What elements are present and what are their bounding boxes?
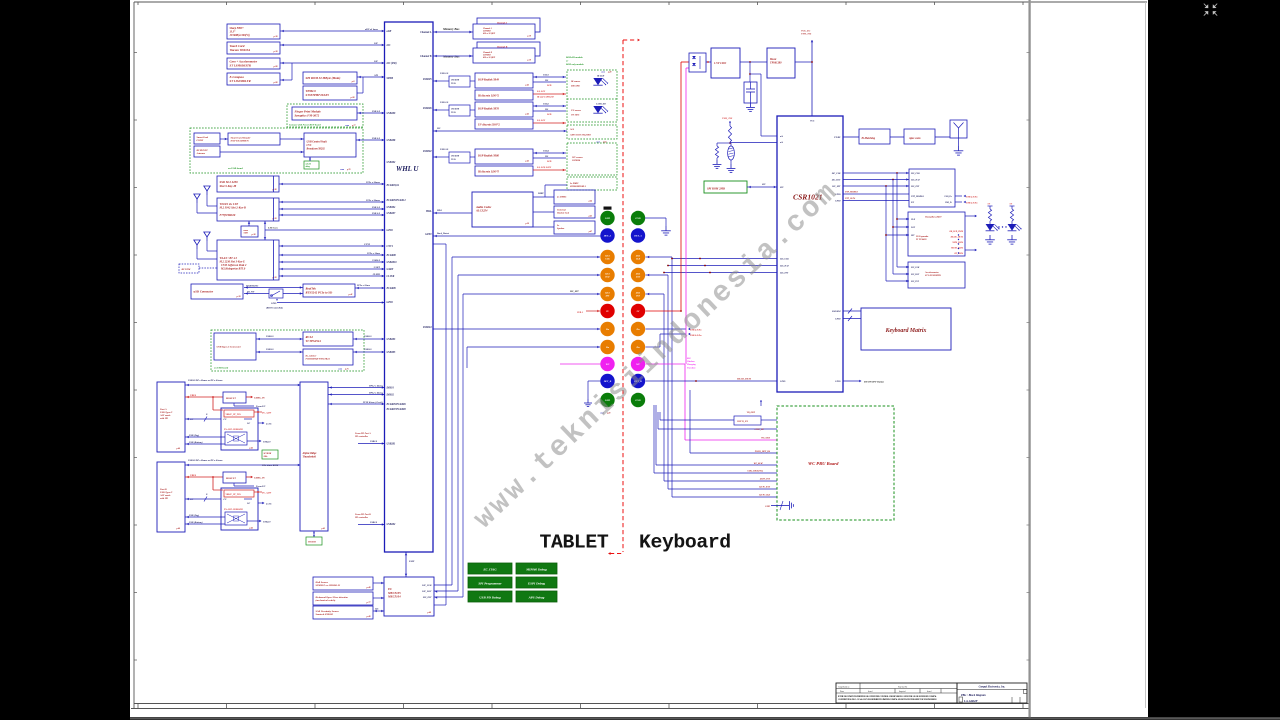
svg-text:5VB A: 5VB A [577, 311, 583, 314]
svg-text:Headset Jack: Headset Jack [556, 211, 570, 214]
svg-text:USB 2.0: USB 2.0 [440, 101, 449, 104]
svg-text:DSP Realtek 5849: DSP Realtek 5849 [477, 78, 499, 81]
svg-text:Wacom W9013A: Wacom W9013A [230, 48, 251, 52]
svg-text:I2C_DAT: I2C_DAT [779, 265, 789, 268]
svg-text:DSP Realtek 5080: DSP Realtek 5080 [477, 154, 499, 157]
svg-text:p.45: p.45 [249, 527, 254, 530]
svg-text:PD 5k: PD 5k [451, 112, 456, 114]
svg-text:PCIe605/PCIe606: PCIe605/PCIe606 [387, 403, 407, 406]
svg-text:USB 3.0: USB 3.0 [440, 148, 449, 151]
svg-text:I2C_DAT: I2C_DAT [421, 590, 432, 593]
svg-text:uSD Connector: uSD Connector [194, 290, 214, 294]
svg-text:KSO/KSI: KSO/KSI [831, 311, 841, 313]
svg-text:INT: INT [605, 296, 610, 298]
svg-text:p.48: p.48 [607, 71, 611, 74]
svg-text:TI TPS2544: TI TPS2544 [306, 339, 322, 343]
svg-text:ESPI: ESPI [408, 560, 414, 563]
svg-text:p.46: p.46 [176, 527, 181, 530]
svg-text:NXP TD-6800EN: NXP TD-6800EN [230, 140, 249, 143]
svg-text:USB ROM: USB ROM [451, 109, 459, 111]
svg-text:ALS: ALS [569, 128, 575, 131]
svg-text:Channel A: Channel A [420, 31, 432, 34]
svg-text:I2C: I2C [373, 42, 378, 45]
svg-text:Charging: Charging [687, 364, 697, 366]
svg-text:DET_A: DET_A [633, 235, 642, 238]
svg-text:LED: LED [546, 85, 552, 87]
svg-text:I2C_CLK: I2C_CLK [910, 267, 920, 269]
svg-text:I2C1: I2C1 [604, 293, 610, 295]
svg-text:USB2.0: USB2.0 [266, 336, 274, 338]
svg-text:2.9, 2.8V: 2.9, 2.8V [536, 120, 546, 122]
svg-text:USB2.0: USB2.0 [263, 442, 271, 444]
svg-text:4Gb x 32 QDP: 4Gb x 32 QDP [482, 32, 496, 35]
svg-text:Dn: Dn [605, 346, 610, 349]
svg-text:I2C_DAT: I2C_DAT [910, 273, 920, 276]
svg-text:Issued: Issued [927, 691, 931, 693]
svg-text:RFFEM: RFFEM [182, 268, 192, 271]
svg-text:I2CW_CLK: I2CW_CLK [758, 495, 770, 497]
svg-text:RGB only module: RGB only module [566, 63, 585, 66]
svg-text:CLK: CLK [605, 259, 610, 261]
svg-text:From PD Port B: From PD Port B [355, 513, 371, 516]
svg-text:IR sensor: IR sensor [570, 81, 580, 83]
svg-text:USB (Top): USB (Top) [189, 434, 199, 437]
svg-text:CC: CC [190, 498, 194, 501]
svg-text:MEC5104: MEC5104 [387, 595, 401, 599]
svg-text:VCC: VCC [810, 121, 815, 123]
svg-text:Universal: Universal [557, 210, 566, 212]
svg-text:GC: GC [247, 423, 251, 425]
svg-text:ST LNG2DMTR: ST LNG2DMTR [925, 275, 941, 277]
svg-text:HDA: HDA [425, 210, 432, 213]
svg-text:WC PRU Board: WC PRU Board [808, 461, 839, 466]
svg-text:PCIe603,04: PCIe603,04 [387, 184, 400, 187]
svg-text:Channel B: Channel B [420, 55, 432, 58]
svg-text:GC: GC [247, 503, 251, 505]
svg-text:EN: EN [910, 202, 914, 204]
svg-text:CC: CC [224, 499, 228, 501]
svg-text:PD 5k: PD 5k [451, 83, 456, 85]
svg-text:I2C_CLK: I2C_CLK [910, 173, 920, 175]
svg-text:4Gb x 32 QDP: 4Gb x 32 QDP [482, 56, 496, 59]
svg-text:I2C_INT: I2C_INT [569, 291, 579, 293]
svg-text:to EC: to EC [266, 423, 272, 426]
svg-text:USB201: USB201 [387, 443, 397, 446]
svg-text:USB 2.0: USB 2.0 [372, 137, 381, 140]
svg-text:CONFIDENTIAL DOC. CLASS A LEVE: CONFIDENTIAL DOC. CLASS A LEVEL DISTRIBU… [838, 698, 937, 701]
svg-text:I2C_DAT: I2C_DAT [910, 179, 920, 182]
svg-text:PCIe x 1lane: PCIe x 1lane [367, 252, 381, 255]
svg-text:GPIO: GPIO [780, 381, 786, 383]
svg-text:From PD Port A: From PD Port A [355, 432, 371, 435]
svg-text:Broadcom 58202: Broadcom 58202 [306, 147, 326, 150]
svg-text:Channel A: Channel A [483, 27, 493, 30]
svg-text:I2C: I2C [374, 609, 379, 611]
svg-text:CLK: CLK [636, 259, 641, 261]
svg-text:Synaptics FM-3672: Synaptics FM-3672 [295, 114, 320, 118]
svg-text:GPIO: GPIO [387, 301, 393, 304]
svg-text:aDP: aDP [387, 30, 392, 33]
svg-text:PTP_SLP#: PTP_SLP# [845, 198, 856, 200]
svg-text:USB_D+: USB_D+ [945, 196, 953, 198]
svg-text:Proj Seal No: Proj Seal No [898, 686, 907, 688]
svg-text:USB202: USB202 [387, 523, 397, 526]
svg-text:PTP_MODE#: PTP_MODE# [845, 192, 859, 194]
svg-text:p.75: p.75 [344, 369, 349, 371]
svg-text:DAT: DAT [604, 276, 610, 279]
svg-text:CNV1: CNV1 [387, 245, 394, 248]
svg-text:GND: GND [635, 217, 640, 220]
svg-text:OV 5675: OV 5675 [571, 115, 580, 117]
svg-text:LA-G862P: LA-G862P [963, 699, 977, 703]
svg-text:SP3021Z or AH1806-W: SP3021Z or AH1806-W [316, 584, 341, 587]
svg-text:Inspected: Inspected [899, 691, 906, 693]
svg-text:USB2.0: USB2.0 [364, 336, 372, 338]
svg-text:p.45: p.45 [321, 527, 326, 530]
svg-text:LED: LED [546, 114, 552, 116]
svg-text:HEAD_DET#: HEAD_DET# [736, 378, 752, 381]
svg-text:VBLK~_PP_TUS: VBLK~_PP_TUS [226, 494, 242, 496]
svg-text:NUM_LED#: NUM_LED# [951, 242, 964, 244]
svg-text:I2C_INT: I2C_INT [910, 281, 920, 283]
svg-text:USB 2.0: USB 2.0 [440, 72, 449, 75]
svg-text:VBLK~_PP_TUS: VBLK~_PP_TUS [226, 414, 242, 416]
svg-text:DET_A: DET_A [603, 235, 612, 238]
svg-text:CSIa2: CSIa2 [543, 104, 550, 106]
svg-text:Speaker: Speaker [557, 228, 564, 230]
svg-text:I2C1: I2C1 [635, 293, 641, 295]
svg-text:SPI60: SPI60 [387, 77, 394, 80]
svg-text:USB Type-C Connector: USB Type-C Connector [217, 345, 241, 348]
svg-text:HDA: HDA [436, 209, 442, 212]
svg-text:GND: GND [765, 506, 770, 508]
svg-text:Keyboard Matrix: Keyboard Matrix [885, 328, 927, 334]
svg-text:(BIOS Controlled): (BIOS Controlled) [266, 307, 283, 310]
svg-text:USB204: USB204 [423, 326, 433, 329]
svg-text:Memory Bus: Memory Bus [442, 27, 460, 31]
svg-text:ST LIS2MDLTR: ST LIS2MDLTR [230, 79, 251, 83]
svg-text:USB (Bottom): USB (Bottom) [189, 521, 203, 524]
svg-text:USB3.0: USB3.0 [364, 349, 372, 351]
svg-text:MUTE_LED#: MUTE_LED# [950, 248, 964, 250]
svg-text:IR and CAM LED: IR and CAM LED [536, 96, 554, 99]
svg-text:IO Expander: IO Expander [915, 236, 929, 238]
svg-text:TS-ACE A5982-DD: TS-ACE A5982-DD [224, 428, 243, 431]
svg-text:CLINK: CLINK [373, 273, 381, 276]
svg-text:USB3A/DP x 2barre or DP x 4 la: USB3A/DP x 2barre or DP x 4 lanes [188, 379, 223, 382]
svg-text:conn: conn [601, 72, 605, 74]
svg-text:DAT: DAT [910, 226, 916, 229]
svg-text:VSW_3V3: VSW_3V3 [722, 117, 733, 120]
svg-text:USB ROM: USB ROM [451, 156, 459, 158]
svg-text:PBG : Block Diagram: PBG : Block Diagram [961, 694, 986, 697]
svg-text:P13HHD3QFN30GTR2A: P13HHD3QFN30GTR2A [306, 357, 331, 360]
svg-text:aDP x2 lanes: aDP x2 lanes [365, 28, 378, 31]
svg-text:DSP Realtek 5876: DSP Realtek 5876 [477, 107, 499, 110]
svg-text:I2C: I2C [436, 128, 441, 130]
svg-text:p.76: p.76 [346, 169, 351, 171]
svg-text:USB302: USB302 [423, 150, 433, 153]
svg-text:1.5V LDO: 1.5V LDO [714, 61, 726, 65]
svg-text:DMIC: DMIC [537, 193, 544, 195]
svg-text:UART: UART [374, 266, 381, 269]
svg-text:p.45: p.45 [525, 113, 530, 116]
svg-text:2/: 2/ [205, 494, 208, 496]
svg-text:5V: 5V [637, 310, 640, 313]
svg-text:USB207: USB207 [387, 212, 397, 215]
svg-text:LED: LED [546, 161, 552, 163]
svg-text:R01: R01 [687, 358, 691, 360]
svg-text:PCIe x 2lanes: PCIe x 2lanes [366, 199, 380, 202]
svg-text:SPI: SPI [780, 187, 784, 189]
svg-text:Name: Name [840, 691, 844, 693]
svg-text:I2C_INT: I2C_INT [910, 186, 920, 188]
svg-text:I2C1: I2C1 [604, 274, 610, 276]
svg-text:USB 2.0: USB 2.0 [372, 212, 381, 215]
svg-text:DPL2 x 4lanes: DPL2 x 4lanes [368, 391, 383, 394]
svg-text:debug: debug [306, 166, 310, 168]
svg-text:SPI Programmer: SPI Programmer [478, 581, 502, 585]
svg-text:I2C_INT: I2C_INT [422, 597, 432, 599]
svg-text:Back_Detect: Back_Detect [436, 232, 449, 235]
svg-text:UV discrete LDO*2: UV discrete LDO*2 [478, 123, 500, 126]
svg-text:with PD: with PD [160, 417, 168, 420]
svg-text:DDI01: DDI01 [386, 387, 395, 390]
svg-text:SD(4050)SIC: SD(4050)SIC [246, 285, 259, 288]
svg-text:Wireless: Wireless [687, 361, 695, 363]
svg-text:Connect with Power BTN board: Connect with Power BTN board [289, 124, 321, 127]
svg-text:CHRG_IN: CHRG_IN [254, 397, 265, 400]
svg-text:CLINK: CLINK [387, 275, 395, 278]
svg-text:16kb: 16kb [264, 456, 268, 458]
svg-text:p.45: p.45 [249, 447, 254, 450]
svg-text:I2C_CLK: I2C_CLK [831, 173, 841, 175]
svg-text:From EC: From EC [256, 405, 266, 408]
svg-text:USB3.0: USB3.0 [266, 349, 274, 351]
svg-text:PCIe608: PCIe608 [387, 254, 397, 257]
svg-text:to EC: to EC [266, 503, 272, 506]
svg-text:IF THE DOCUMENT IS PRINTED OR: IF THE DOCUMENT IS PRINTED OR COPIED THE… [838, 695, 937, 698]
svg-text:Antenna: Antenna [196, 152, 206, 155]
svg-text:VSW_3V3: VSW_3V3 [801, 33, 812, 36]
svg-text:SPI: SPI [762, 184, 766, 186]
svg-text:TABLET: TABLET [540, 531, 609, 553]
svg-text:CAM LED: CAM LED [596, 103, 606, 106]
svg-text:USB208: USB208 [387, 139, 397, 142]
svg-text:CC: CC [224, 419, 228, 421]
svg-text:USB304: USB304 [387, 206, 397, 209]
svg-text:UART: UART [387, 268, 394, 271]
svg-text:JV260B(x1200(V)): JV260B(x1200(V)) [230, 34, 250, 37]
svg-text:IR LED: IR LED [596, 76, 605, 78]
svg-text:GPIO: GPIO [835, 319, 841, 321]
svg-text:ESPI Debug: ESPI Debug [527, 581, 545, 585]
svg-text:GPIO: GPIO [425, 233, 431, 236]
svg-text:USB203: USB203 [387, 338, 397, 341]
svg-text:TI TC4630: TI TC4630 [916, 238, 927, 241]
svg-text:USB (Top): USB (Top) [189, 514, 199, 517]
svg-text:p.45: p.45 [525, 160, 530, 163]
svg-text:PCIE 4 lane ( Gen3 ): PCIE 4 lane ( Gen3 ) [363, 401, 383, 404]
svg-text:on USB board: on USB board [228, 167, 243, 170]
svg-text:I2C (650): I2C (650) [386, 62, 397, 65]
svg-text:WC_OKT: WC_OKT [761, 438, 771, 440]
svg-text:Pi-Matching: Pi-Matching [862, 137, 876, 140]
svg-text:CSIa1: CSIa1 [543, 75, 549, 77]
svg-text:5V_ALW: 5V_ALW [262, 492, 272, 495]
svg-text:USB2.0: USB2.0 [370, 522, 378, 524]
svg-text:M2.Halogertae BT5.0: M2.Halogertae BT5.0 [220, 267, 246, 270]
svg-text:USB2.0: USB2.0 [370, 441, 378, 443]
svg-text:ALC3254: ALC3254 [475, 209, 488, 213]
svg-text:Dn: Dn [605, 328, 610, 331]
svg-text:5V_ALW: 5V_ALW [262, 412, 272, 415]
svg-text:(mechanical switch): (mechanical switch) [316, 599, 336, 602]
svg-text:3x DMIC: 3x DMIC [569, 183, 579, 185]
svg-text:MOSFET: MOSFET [225, 477, 236, 480]
svg-text:WCFW_EN: WCFW_EN [737, 421, 748, 423]
svg-text:BT ON/OFF Button: BT ON/OFF Button [863, 381, 885, 384]
svg-text:AMS-TAOS TSL25903: AMS-TAOS TSL25903 [569, 134, 592, 137]
svg-text:p.45: p.45 [588, 215, 592, 218]
svg-text:ChargeKan_R459: ChargeKan_R459 [925, 216, 942, 219]
svg-text:PD controller: PD controller [355, 516, 368, 519]
svg-text:Comp/Serial no: Comp/Serial no [838, 686, 849, 688]
svg-text:2.9, 2.8V, 2.85V: 2.9, 2.8V, 2.85V [536, 167, 552, 169]
svg-text:USB PD Debug: USB PD Debug [479, 595, 501, 599]
svg-text:F77fW968.00: F77fW968.00 [220, 214, 236, 217]
svg-text:USB206: USB206 [423, 107, 433, 110]
svg-text:TS-ACE A5982-DD: TS-ACE A5982-DD [224, 508, 243, 511]
svg-text:VBES: VBES [190, 394, 197, 397]
svg-text:IR discrete LDO*5: IR discrete LDO*5 [477, 170, 500, 173]
svg-text:I2CW_DAT: I2CW_DAT [758, 486, 770, 489]
svg-text:CSIa4: CSIa4 [543, 150, 550, 153]
svg-text:USB2.0: USB2.0 [263, 522, 271, 524]
svg-text:Issued: Issued [868, 691, 872, 693]
svg-text:WC: WC [606, 363, 610, 366]
svg-text:From EC: From EC [256, 485, 266, 488]
svg-text:PCIe609: PCIe609 [387, 287, 397, 290]
svg-text:SPI ROM 2MB: SPI ROM 2MB [707, 188, 725, 191]
svg-text:p.45: p.45 [525, 84, 530, 87]
svg-text:VBES: VBES [190, 474, 197, 477]
svg-text:USB205: USB205 [423, 78, 433, 81]
svg-text:USB3A/DP x 2barre or DP x 4 la: USB3A/DP x 2barre or DP x 4 lanes [188, 459, 223, 462]
svg-text:Function: Function [687, 366, 696, 369]
svg-text:PCIe x 1lane: PCIe x 1lane [357, 284, 371, 287]
svg-text:CLK: CLK [911, 219, 916, 221]
svg-text:ST LSM6DS3TR: ST LSM6DS3TR [230, 64, 251, 68]
svg-text:with PD: with PD [160, 497, 168, 500]
svg-text:p.10: p.10 [527, 60, 532, 62]
svg-text:I2C_CLK: I2C_CLK [421, 585, 432, 587]
svg-text:SIM: SIM [244, 233, 248, 235]
svg-text:USB (Bottom): USB (Bottom) [189, 441, 203, 444]
svg-text:p.10: p.10 [527, 36, 532, 38]
svg-text:Dn: Dn [635, 328, 640, 331]
svg-text:CNVI: CNVI [364, 243, 370, 246]
svg-text:USB ROM: USB ROM [451, 80, 459, 82]
svg-text:VB_OKT: VB_OKT [747, 412, 756, 414]
svg-text:RTS5242 PCIe to SD: RTS5242 PCIe to SD [306, 291, 333, 295]
svg-text:GPIO: GPIO [271, 303, 277, 305]
svg-text:SPK0838HT4H-1: SPK0838HT4H-1 [570, 185, 586, 188]
svg-text:USB_D-: USB_D- [945, 202, 952, 204]
svg-text:2/: 2/ [205, 414, 208, 416]
svg-text:I2C_INT: I2C_INT [779, 273, 789, 275]
svg-text:WC_bIAC: WC_bIAC [754, 462, 764, 465]
svg-text:DAT: DAT [635, 276, 641, 279]
svg-text:SPI ROM: SPI ROM [308, 542, 316, 544]
svg-text:WWAN 4G LTE: WWAN 4G LTE [220, 203, 239, 206]
svg-text:CHG_BICX(NC): CHG_BICX(NC) [747, 470, 763, 473]
svg-text:GND: GND [635, 399, 640, 402]
svg-text:EC JTAG: EC JTAG [482, 567, 497, 571]
svg-text:Apex conn: Apex conn [908, 137, 921, 140]
svg-text:Accelerometer: Accelerometer [924, 271, 939, 274]
svg-text:IR discrete LDO*2: IR discrete LDO*2 [477, 94, 500, 97]
svg-text:I2C1: I2C1 [604, 256, 610, 258]
svg-text:Memory Bus: Memory Bus [442, 55, 460, 59]
svg-text:MOSFET: MOSFET [225, 397, 236, 400]
svg-text:INT: INT [910, 235, 915, 237]
svg-text:CHRG_IN: CHRG_IN [254, 477, 265, 480]
svg-text:USB 3.0: USB 3.0 [372, 206, 381, 209]
svg-text:p.41: p.41 [348, 293, 353, 296]
svg-text:PDs share ROM: PDs share ROM [262, 464, 279, 467]
svg-text:Semtech SX9320: Semtech SX9320 [316, 613, 334, 616]
svg-text:Slot 3-Key-M: Slot 3-Key-M [220, 184, 237, 188]
svg-text:I2C1: I2C1 [635, 256, 641, 258]
svg-text:USB305: USB305 [387, 351, 397, 354]
svg-text:USB 2.0 Dn: USB 2.0 Dn [966, 197, 978, 199]
svg-text:GPIO: GPIO [835, 381, 841, 383]
svg-text:PD controller: PD controller [355, 435, 368, 438]
svg-text:2x DMIC: 2x DMIC [556, 196, 567, 199]
svg-text:M.2 3042 Slot 2-Key-B: M.2 3042 Slot 2-Key-B [219, 207, 246, 210]
svg-text:USB 2.0: USB 2.0 [372, 110, 381, 113]
svg-text:PCIe x 2lanes: PCIe x 2lanes [366, 181, 380, 184]
svg-text:I2C: I2C [373, 60, 378, 63]
svg-text:POGO_DET_R#: POGO_DET_R# [755, 451, 771, 453]
svg-text:LTE Gen: LTE Gen [267, 227, 278, 230]
svg-text:USB2.0: USB2.0 [372, 259, 380, 262]
svg-text:UV sensor: UV sensor [571, 110, 581, 112]
svg-text:DPL2 x 4lanes: DPL2 x 4lanes [368, 384, 383, 387]
svg-text:INT: INT [635, 296, 640, 298]
svg-text:KB_LED_PWM: KB_LED_PWM [949, 231, 964, 233]
svg-text:TPS61280: TPS61280 [770, 61, 782, 64]
svg-text:ST33TPHF2XSP1: ST33TPHF2XSP1 [306, 93, 330, 97]
svg-text:Re-redriver: Re-redriver [306, 355, 317, 357]
svg-text:DDI02: DDI02 [386, 394, 395, 397]
svg-text:WHL U: WHL U [396, 165, 419, 173]
svg-text:I2CW_INT: I2CW_INT [759, 479, 771, 481]
svg-text:KB_BC_DET#: KB_BC_DET# [950, 237, 964, 239]
svg-text:SPI: SPI [374, 74, 378, 77]
svg-text:5V: 5V [606, 310, 609, 313]
svg-text:on USB board: on USB board [214, 367, 229, 370]
svg-text:Compal Electronics, Inc.: Compal Electronics, Inc. [979, 686, 1006, 689]
svg-text:USB2010: USB2010 [387, 261, 398, 264]
svg-text:SPI ROM: SPI ROM [264, 453, 272, 455]
svg-text:CONN: CONN [197, 139, 204, 142]
svg-text:I2C1: I2C1 [635, 274, 641, 276]
svg-text:Keyboard: Keyboard [639, 531, 731, 553]
svg-text:TX/RX: TX/RX [834, 137, 841, 139]
svg-text:p.48: p.48 [427, 611, 432, 614]
